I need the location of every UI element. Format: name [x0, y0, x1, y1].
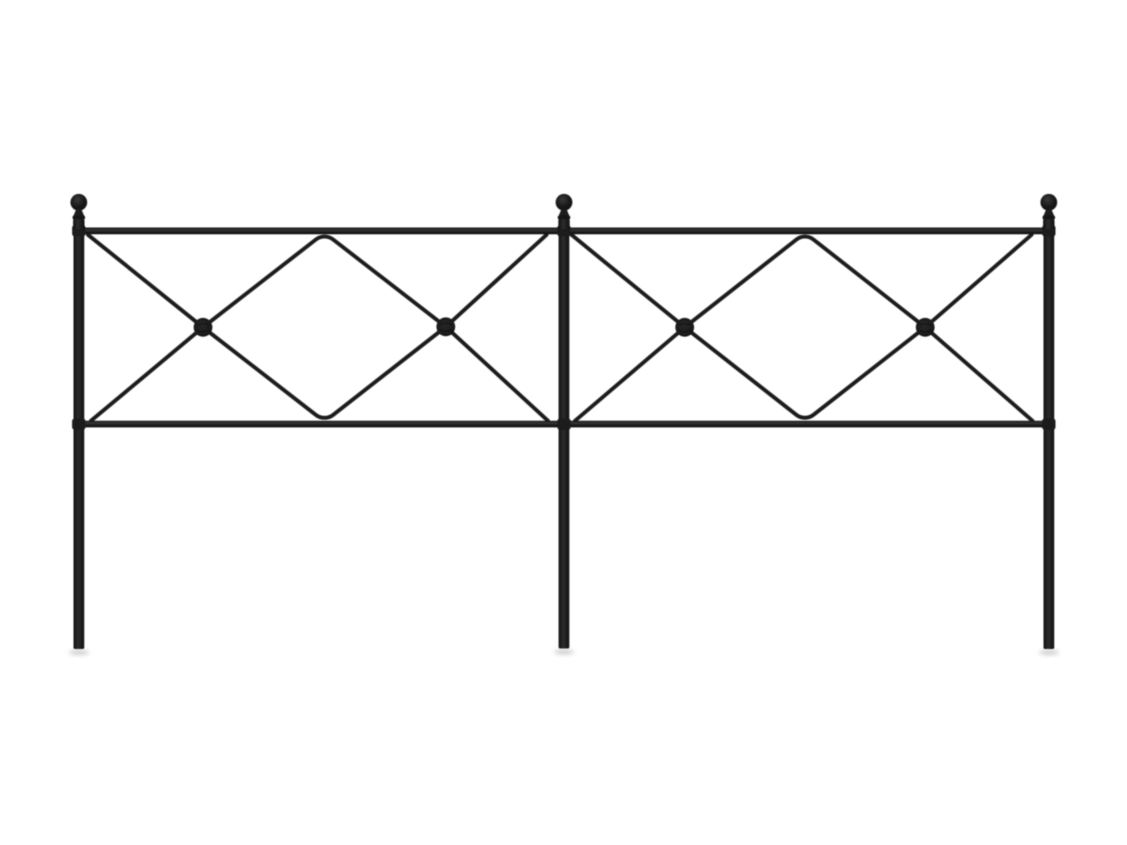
- right post: [1044, 224, 1055, 649]
- panel 2 inverted-V rod: [575, 237, 1033, 421]
- panel 1 V rod (top-left to bottom tip to top-right): [88, 235, 547, 418]
- floor shadow right foot: [1039, 650, 1059, 655]
- ball finial center: [556, 194, 573, 229]
- joint sleeve left post / top rail: [72, 225, 85, 236]
- joint sleeve right post / bottom rail: [1042, 419, 1055, 430]
- rosette panel 2 left: [675, 318, 694, 337]
- rosette panel 1 left: [194, 318, 213, 337]
- joint sleeve center post / bottom rail: [557, 419, 570, 430]
- floor shadow left foot: [69, 650, 89, 655]
- joint sleeve right post / top rail: [1042, 225, 1055, 236]
- panel 1 inverted-V rod (bottom-left to top tip to bottom-right): [91, 237, 548, 421]
- panel 2 V rod: [572, 235, 1032, 418]
- rosette panel 1 right: [436, 317, 455, 336]
- top rail: [73, 228, 1054, 235]
- joint sleeve left post / bottom rail: [72, 419, 85, 430]
- floor shadow center foot: [554, 649, 574, 654]
- bottom rail: [73, 421, 1054, 428]
- rosette panel 2 right: [916, 318, 935, 337]
- ball finial left: [70, 194, 87, 229]
- center post: [559, 224, 570, 649]
- left post: [74, 224, 85, 649]
- joint sleeve center post / top rail: [557, 225, 570, 236]
- ball finial right: [1040, 194, 1057, 229]
